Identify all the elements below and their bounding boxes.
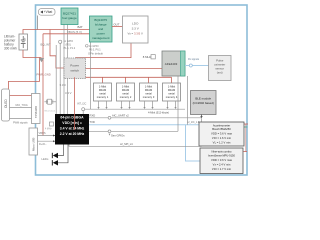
svg-text:V DD = 3.6 V max: V DD = 3.6 V max bbox=[211, 158, 233, 162]
svg-text:+Vbat: +Vbat bbox=[44, 10, 53, 14]
wire FRAM supply bus bbox=[74, 77, 171, 78]
accelerometer BMA250 bbox=[199, 122, 244, 146]
svg-text:memory 4: memory 4 bbox=[166, 95, 178, 99]
svg-text:VBUS (5 V): VBUS (5 V) bbox=[67, 30, 82, 34]
fuel gauge BQ27421 bbox=[61, 8, 78, 25]
svg-text:V L = 1.2 V min: V L = 1.2 V min bbox=[213, 141, 231, 145]
svg-text:VBUS: VBUS bbox=[39, 131, 46, 135]
wire BAT rail bbox=[23, 30, 90, 35]
svg-text:1-Mbit: 1-Mbit bbox=[168, 85, 175, 89]
charger BQ24075 bbox=[90, 16, 113, 42]
svg-text:MCI_TXCk: MCI_TXCk bbox=[16, 104, 29, 107]
svg-text:and: and bbox=[98, 27, 103, 31]
svg-text:TXD: TXD bbox=[90, 120, 95, 124]
svg-text:1-Mbit: 1-Mbit bbox=[122, 85, 129, 89]
battery text bbox=[4, 35, 17, 51]
wire LDO output drop bbox=[76, 43, 131, 58]
regulator LDO bbox=[123, 16, 149, 43]
svg-text:D+/D−: D+/D− bbox=[39, 142, 47, 146]
svg-text:RXD: RXD bbox=[90, 113, 96, 117]
wire Rx signals to sensor bbox=[185, 65, 209, 67]
svg-text:serial: serial bbox=[168, 92, 175, 96]
wire power switch output 3.3V rail bbox=[86, 68, 163, 70]
svg-text:x2_SPI_x4: x2_SPI_x4 bbox=[120, 142, 133, 146]
wire SPI bus bottom bbox=[69, 145, 202, 147]
svg-text:b/charge: b/charge bbox=[95, 23, 107, 27]
svg-text:V x = 2.4 V min: V x = 2.4 V min bbox=[213, 163, 231, 167]
svg-text:V DD = 3.6 V max: V DD = 3.6 V max bbox=[211, 132, 233, 136]
wire VBUS vertical from USB bbox=[42, 34, 44, 136]
svg-text:memory 2: memory 2 bbox=[120, 95, 132, 99]
memory FRAM4 bbox=[163, 83, 181, 101]
power switch bbox=[64, 58, 86, 79]
svg-text:300 mAh: 300 mAh bbox=[4, 47, 17, 51]
led D1 bbox=[58, 145, 64, 156]
svg-text:4-Mbit (512-kbyte): 4-Mbit (512-kbyte) bbox=[148, 111, 169, 115]
svg-text:3.3 V: 3.3 V bbox=[132, 27, 140, 31]
driver TPS61165 bbox=[32, 94, 41, 124]
svg-text:(CC2640 based): (CC2640 based) bbox=[193, 101, 214, 105]
svg-text:BAT: BAT bbox=[78, 25, 84, 29]
svg-text:AFE4403: AFE4403 bbox=[165, 62, 178, 66]
svg-text:+: + bbox=[24, 36, 26, 40]
svg-text:memory 3: memory 3 bbox=[143, 95, 155, 99]
svg-text:(PG): (PG) bbox=[66, 43, 71, 46]
wire BLE drop with arrow bbox=[201, 115, 203, 117]
display OLED connector bbox=[2, 89, 10, 121]
wire VBUS 5V rail bbox=[43, 33, 90, 35]
wire right sensor supply rail bbox=[245, 124, 247, 152]
svg-text:LDO: LDO bbox=[132, 22, 139, 26]
svg-text:3.3 V: 3.3 V bbox=[60, 83, 67, 87]
AFE4403 U-AFE bbox=[162, 51, 185, 76]
svg-text:OUT: OUT bbox=[114, 23, 120, 27]
svg-text:P1.1, P1.2: P1.1, P1.2 bbox=[64, 47, 76, 50]
wire FRAM SPI bus bbox=[83, 108, 185, 110]
component 4 MHz resonator bbox=[50, 122, 54, 126]
svg-text:FRAM: FRAM bbox=[168, 88, 175, 92]
svg-text:TPS61165: TPS61165 bbox=[34, 105, 38, 118]
wire USB VBUS to MCU bbox=[38, 135, 56, 137]
node junction circle bbox=[59, 40, 62, 43]
svg-text:serial: serial bbox=[145, 92, 152, 96]
wire I2C 1.8 blue bus bbox=[89, 124, 199, 126]
svg-text:x2_I2C_1.8: x2_I2C_1.8 bbox=[187, 121, 200, 124]
svg-text:2.2 V at 20 MHz: 2.2 V at 20 MHz bbox=[60, 132, 85, 136]
wire USB data to MCU bbox=[38, 140, 56, 142]
svg-text:3.4 V at 24 MHz: 3.4 V at 24 MHz bbox=[60, 126, 85, 130]
memory FRAM1 bbox=[94, 83, 112, 101]
svg-text:V IO = 1.7 V min: V IO = 1.7 V min bbox=[212, 167, 232, 171]
svg-text:memory 1: memory 1 bbox=[97, 95, 109, 99]
svg-text:management: management bbox=[92, 36, 110, 40]
wire FRAM supply drops bbox=[103, 77, 172, 83]
battery B1 bbox=[19, 34, 28, 50]
svg-text:serial: serial bbox=[99, 92, 106, 96]
wire 3.3V into MCU over box bbox=[73, 77, 75, 130]
module BLE CC2640 bbox=[191, 91, 217, 115]
mcu 64-pin DSBGA bbox=[55, 114, 89, 145]
svg-text:serial: serial bbox=[122, 92, 129, 96]
node junction P6 GPIO bbox=[86, 45, 89, 48]
svg-text:FRAM: FRAM bbox=[99, 88, 106, 92]
wire fuel gauge I2C verticals to MCU bbox=[56, 25, 90, 115]
led D2 bbox=[58, 145, 68, 163]
svg-text:Micro USB: Micro USB bbox=[32, 138, 36, 151]
crystal 32 kHz bbox=[44, 99, 56, 104]
svg-text:MCU clock: MCU clock bbox=[45, 111, 56, 113]
svg-text:V DD [min] =: V DD [min] = bbox=[62, 121, 82, 125]
wire OLED signals bbox=[10, 107, 32, 109]
wire sensor GPIO bus bbox=[89, 130, 178, 132]
svg-text:FRAM: FRAM bbox=[122, 88, 129, 92]
svg-text:OLED: OLED bbox=[4, 99, 8, 108]
wire to power switch input bbox=[50, 30, 64, 69]
svg-text:switch: switch bbox=[70, 69, 79, 73]
memory FRAM3 bbox=[140, 83, 158, 101]
svg-text:InvenSense MPU-9150: InvenSense MPU-9150 bbox=[208, 153, 235, 157]
svg-text:1-Mbit: 1-Mbit bbox=[145, 85, 152, 89]
svg-text:Bosch BMA250: Bosch BMA250 bbox=[212, 127, 231, 131]
svg-text:3.3 V: 3.3 V bbox=[65, 91, 72, 95]
svg-text:BQ27421: BQ27421 bbox=[63, 12, 76, 16]
svg-text:VB = 3.3/5 V: VB = 3.3/5 V bbox=[128, 32, 143, 36]
imu MPU-9150 bbox=[200, 148, 243, 174]
svg-text:Power: Power bbox=[70, 64, 79, 68]
wire OLED to driver supply bbox=[10, 95, 32, 97]
wire blue branch to MPU bbox=[186, 125, 201, 161]
wire OUT bbox=[112, 26, 123, 28]
+Vbat net flag bbox=[39, 9, 56, 16]
svg-text:1x GPIO: 1x GPIO bbox=[64, 40, 74, 43]
svg-text:BQ24075: BQ24075 bbox=[94, 18, 107, 22]
wire battery negative bbox=[23, 50, 42, 58]
svg-text:PWR_GND: PWR_GND bbox=[37, 73, 51, 77]
svg-text:(ext): (ext) bbox=[217, 71, 223, 75]
svg-text:8 MHz: 8 MHz bbox=[143, 55, 152, 59]
memory FRAM2 bbox=[117, 83, 135, 101]
wire UART bus bbox=[89, 117, 202, 119]
svg-text:Nine-axis combo: Nine-axis combo bbox=[211, 150, 232, 154]
svg-text:64-pin DSBGA: 64-pin DSBGA bbox=[60, 116, 84, 120]
ground power ground bbox=[39, 58, 44, 62]
pulse oximeter sensor bbox=[209, 56, 232, 81]
connector Micro USB bbox=[29, 128, 38, 155]
svg-text:V IO = 1.6 V min: V IO = 1.6 V min bbox=[212, 136, 232, 140]
board outline bbox=[36, 5, 248, 175]
svg-text:Sen GPIOs: Sen GPIOs bbox=[111, 134, 125, 138]
svg-text:LEDs: LEDs bbox=[42, 157, 49, 161]
svg-text:1-Mbit: 1-Mbit bbox=[99, 85, 106, 89]
svg-text:Rx signals: Rx signals bbox=[188, 58, 200, 61]
svg-text:power: power bbox=[97, 32, 105, 36]
wire left display supply bbox=[9, 58, 40, 90]
svg-text:P6.0, P6.1: P6.0, P6.1 bbox=[89, 48, 101, 51]
svg-text:FRAM: FRAM bbox=[145, 88, 152, 92]
svg-text:Accelerometer: Accelerometer bbox=[213, 123, 230, 127]
svg-text:AIC_UART x2: AIC_UART x2 bbox=[112, 113, 129, 117]
svg-text:BQ_INT: BQ_INT bbox=[41, 42, 51, 46]
svg-text:fuel gauge: fuel gauge bbox=[62, 16, 77, 20]
wire battery positive / +Vbat drop bbox=[37, 16, 39, 30]
svg-text:OPin default: OPin default bbox=[88, 52, 103, 56]
svg-text:PWM signals: PWM signals bbox=[13, 122, 28, 125]
svg-text:4 MHz: 4 MHz bbox=[45, 128, 52, 130]
svg-text:INT_I2C: INT_I2C bbox=[77, 102, 87, 105]
